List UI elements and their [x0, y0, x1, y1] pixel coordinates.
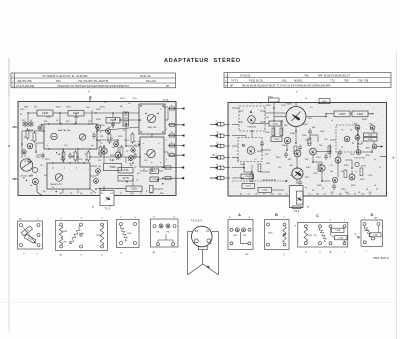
svg-text:6o: 6o [30, 185, 32, 187]
resistor [74, 152, 77, 160]
transistor TS308 [372, 144, 377, 149]
svg-text:VC TRANS./V aa./P1.01. 61. 94,: VC TRANS./V aa./P1.01. 61. 94,95,952, [42, 74, 89, 78]
svg-text:R303: R303 [303, 124, 308, 126]
svg-text:4: 4 [166, 159, 167, 161]
trimmer [38, 126, 42, 130]
svg-text:90,91,93.: 90,91,93. [140, 74, 151, 78]
capacitor C306 [364, 133, 378, 137]
IC block U1 [139, 104, 165, 134]
svg-text:R21: R21 [44, 121, 47, 123]
svg-text:C304: C304 [357, 113, 364, 116]
resistor [33, 133, 36, 141]
svg-text:D: D [371, 213, 374, 217]
svg-text:9P.: 9P. [230, 84, 234, 88]
svg-text:4n: 4n [305, 187, 307, 189]
svg-text:TRANSIST.TS.754/TS2/TS3/TS4/TS: TRANSIST.TS.754/TS2/TS3/TS4/TS5/9T3/9T4/… [57, 84, 130, 88]
svg-text:3: 3 [166, 140, 167, 142]
pin lead 1 [194, 239, 198, 243]
resistor [308, 138, 311, 146]
IC block U3 [44, 124, 97, 149]
svg-text:TS301: TS301 [286, 104, 292, 106]
svg-text:3756: 3756 [350, 154, 354, 156]
transistor [22, 150, 26, 154]
capacitor [68, 153, 72, 160]
svg-text:R206: R206 [96, 109, 101, 111]
resistor 52B8 [59, 226, 63, 238]
svg-text:944, 95,96,97,98,99,952,97.: 944, 95,96,97,98,99,952,97. [318, 74, 351, 78]
svg-text:e7: e7 [341, 147, 343, 149]
transistor TS314 [319, 165, 325, 171]
resistor [87, 152, 90, 160]
svg-text:A: A [238, 213, 241, 217]
resistor 5.10m [70, 226, 81, 244]
svg-text:R0: R0 [44, 175, 46, 177]
svg-text:Q: Q [134, 217, 136, 219]
svg-text:7R0: 7R0 [319, 145, 322, 147]
transistor TS312 [310, 148, 317, 155]
svg-text:C9: C9 [308, 194, 310, 196]
svg-text:C311: C311 [246, 186, 252, 188]
capacitor [133, 153, 137, 160]
svg-text:C4: C4 [128, 103, 130, 105]
resistor 51B5 [120, 226, 127, 241]
svg-text:C301: C301 [281, 105, 286, 107]
svg-text:C201: C201 [46, 117, 51, 119]
wire [53, 112, 68, 114]
resistor R215 [104, 164, 122, 171]
input connector [210, 123, 217, 125]
svg-text:C315: C315 [368, 175, 373, 177]
transistor [114, 142, 119, 147]
capacitor C251 [126, 186, 142, 192]
svg-text:4J: 4J [52, 168, 54, 170]
svg-text:50V: 50V [308, 118, 312, 120]
svg-text:R34: R34 [160, 193, 163, 195]
svg-text:R7: R7 [126, 151, 128, 153]
svg-text:R202: R202 [56, 107, 61, 109]
svg-text:091,: 091, [282, 79, 287, 83]
svg-text:e2: e2 [374, 185, 376, 187]
capacitor C305 [269, 121, 281, 126]
decoder section B [238, 138, 262, 162]
svg-text:B: B [275, 213, 278, 217]
svg-text:C2: C2 [30, 140, 32, 142]
svg-text:795,: 795, [344, 79, 349, 83]
svg-text:R31: R31 [305, 159, 308, 161]
svg-text:R312: R312 [276, 157, 281, 159]
resistor [108, 134, 111, 142]
svg-text:51B5: 51B5 [127, 233, 131, 235]
svg-text:1n: 1n [134, 141, 136, 143]
svg-text:C9: C9 [150, 193, 152, 195]
svg-text:R220: R220 [78, 159, 83, 161]
svg-text:770,: 770, [330, 79, 335, 83]
capacitor C304 [352, 111, 368, 117]
svg-text:Q: Q [101, 254, 103, 256]
resistor R207 (vertical) [123, 112, 129, 126]
svg-text:6784: 6784 [257, 151, 261, 153]
svg-text:C303: C303 [339, 113, 346, 116]
pin connector [168, 154, 176, 156]
resistor [294, 146, 297, 154]
svg-text:52B8: 52B8 [63, 231, 67, 233]
svg-text:R32: R32 [100, 193, 103, 195]
svg-text:2R0: 2R0 [86, 107, 89, 109]
input connector left lower [12, 178, 18, 180]
input connector [210, 135, 217, 137]
svg-text:C316: C316 [341, 189, 346, 191]
svg-text:9P.: 9P. [166, 84, 170, 88]
resistor [280, 128, 283, 136]
svg-text:C8: C8 [98, 141, 100, 143]
svg-text:4k2: 4k2 [266, 117, 269, 119]
resistor 510k [304, 228, 308, 242]
transistor [115, 152, 121, 158]
capacitor C312 [258, 187, 272, 192]
svg-text:51B2: 51B2 [268, 232, 272, 234]
svg-text:7505: 7505 [109, 165, 116, 169]
svg-text:346,257,256,: 346,257,256, [17, 79, 33, 83]
resistor [62, 152, 65, 160]
capacitor C30A [370, 233, 382, 237]
capacitor C310 [241, 174, 254, 179]
capacitor C307 [364, 137, 378, 141]
output connector d [380, 156, 387, 158]
svg-text:22k: 22k [278, 167, 281, 169]
capacitor [92, 133, 96, 140]
transistor [96, 169, 101, 174]
svg-text:57B4: 57B4 [96, 235, 100, 237]
output stage TS3 box right [289, 186, 303, 208]
resistor [120, 147, 123, 155]
svg-text:d: d [8, 144, 10, 148]
svg-text:R304: R304 [322, 101, 328, 103]
pinout box L3 [117, 220, 140, 248]
svg-text:R36: R36 [345, 192, 348, 194]
capacitor C303 [326, 113, 334, 115]
svg-text:1: 1 [216, 174, 217, 176]
transistor [94, 179, 99, 184]
transistor TS4 [51, 133, 57, 139]
output stage TS3 box [100, 191, 114, 206]
svg-text:6P1: 6P1 [34, 107, 38, 109]
svg-text:C313: C313 [316, 157, 321, 159]
svg-text:R317: R317 [305, 177, 310, 179]
transistor TS302 [248, 116, 256, 124]
svg-text:R9: R9 [43, 191, 45, 193]
transistor [129, 156, 134, 161]
svg-text:C305: C305 [272, 123, 278, 125]
resistor [318, 164, 321, 172]
transistor TS316 [349, 174, 355, 180]
svg-text:9o: 9o [52, 187, 54, 189]
svg-text:C306: C306 [368, 135, 373, 137]
svg-text:97,92,93.: 97,92,93. [240, 74, 251, 78]
svg-text:R204: R204 [120, 98, 125, 100]
svg-text:R213: R213 [124, 140, 129, 142]
svg-text:a1: a1 [143, 169, 145, 171]
resistor [272, 128, 275, 136]
svg-text:C203: C203 [73, 111, 80, 115]
svg-text:R209: R209 [100, 125, 105, 127]
tab [198, 246, 207, 250]
svg-text:R201: R201 [20, 109, 25, 111]
svg-text:R218: R218 [36, 157, 41, 159]
resistor [99, 147, 102, 155]
trimmer row [230, 228, 233, 231]
transistor TS307 [355, 135, 360, 140]
svg-text:p: p [160, 162, 161, 164]
svg-text:TS 3: TS 3 [104, 208, 110, 211]
resistor [131, 134, 134, 142]
resistor [328, 146, 331, 154]
svg-text:1H1: 1H1 [156, 231, 159, 233]
svg-text:C17H: C17H [122, 177, 128, 180]
svg-text:C5: C5 [136, 180, 138, 182]
capacitor [41, 153, 45, 160]
svg-text:90,905,: 90,905, [294, 79, 303, 83]
svg-text:2k2: 2k2 [110, 138, 113, 140]
svg-text:74,73,: 74,73, [231, 79, 239, 83]
svg-text:R320: R320 [317, 185, 322, 187]
svg-text:1: 1 [171, 122, 172, 124]
svg-text:7H1: 7H1 [166, 231, 169, 233]
capacitor C26 (vertical) [150, 186, 154, 193]
wiring mesh left [27, 113, 29, 127]
capacitor C200 [28, 112, 37, 114]
trimmer [23, 122, 27, 126]
input connector [210, 145, 217, 147]
resistor [360, 168, 363, 176]
transistor [101, 148, 107, 154]
svg-text:C31: C31 [110, 193, 113, 195]
svg-text:4k7: 4k7 [137, 173, 140, 175]
resistor R304 [319, 99, 330, 104]
wire [103, 186, 105, 191]
capacitor C302 [271, 137, 282, 142]
IC block U2 [140, 137, 164, 167]
parts table right [224, 73, 391, 88]
svg-text:R32: R32 [270, 194, 273, 196]
svg-text:R8: R8 [96, 175, 98, 177]
input connector [210, 167, 217, 169]
svg-text:57k: 57k [314, 235, 317, 237]
svg-text:R212: R212 [118, 136, 123, 138]
pinout box L2 [56, 221, 108, 251]
capacitor [27, 158, 31, 165]
transistor TS2 [147, 149, 155, 157]
input connector [210, 156, 217, 158]
capacitor C10A [332, 228, 345, 232]
svg-text:R217: R217 [116, 159, 121, 161]
resistor 67B [21, 226, 32, 236]
transistor TS301 [286, 107, 306, 127]
capacitor [284, 152, 288, 159]
svg-text:51H5: 51H5 [63, 242, 68, 244]
capacitor [338, 150, 342, 157]
svg-text:0J2: 0J2 [98, 153, 101, 155]
transistor TS317 [332, 177, 337, 182]
resistor [250, 174, 253, 182]
extra clutter left [56, 152, 57, 153]
svg-text:01: 01 [30, 120, 32, 122]
svg-text:R305: R305 [240, 164, 245, 166]
left channel board outline [18, 102, 176, 196]
trimmer [29, 122, 33, 126]
resistor [26, 130, 29, 138]
input connector [210, 177, 217, 179]
svg-text:C: C [316, 214, 319, 218]
svg-text:P41.: P41. [56, 79, 62, 83]
svg-text:47k: 47k [128, 160, 131, 162]
svg-text:TBA 305 A: TBA 305 A [373, 256, 390, 260]
svg-text:BC: BC [195, 231, 199, 233]
svg-text:5H1: 5H1 [243, 235, 246, 237]
svg-text:x1: x1 [374, 159, 376, 161]
resistor [258, 164, 261, 172]
decoder section A [239, 106, 265, 131]
svg-text:C307: C307 [368, 139, 373, 141]
stub to node 6 [89, 96, 91, 102]
svg-text:C3: C3 [310, 107, 312, 109]
wire to circle [188, 230, 192, 232]
capacitor C311 [242, 184, 255, 189]
svg-text:510k: 510k [308, 235, 312, 237]
svg-text:R51: R51 [100, 136, 103, 138]
transistor TS6 [55, 174, 63, 182]
svg-text:C34: C34 [368, 192, 371, 194]
svg-text:R314: R314 [306, 167, 311, 169]
transistor TS315 [335, 157, 341, 163]
svg-text:9R,99,98,96,P&295,9T,96,97,T7,: 9R,99,98,96,P&295,9T,96,97,T7,97,97,91,P… [242, 84, 331, 88]
output connector [163, 167, 176, 169]
transistor [96, 125, 101, 130]
svg-text:C4: C4 [100, 143, 102, 145]
transistor TS313 [292, 168, 303, 179]
transistor TS311 [294, 150, 301, 157]
pin connector [168, 108, 176, 110]
svg-text:C312: C312 [262, 190, 268, 192]
svg-text:97,247,254,256,: 97,247,254,256, [16, 84, 35, 88]
svg-text:C21: C21 [122, 130, 125, 132]
svg-text:J: J [171, 152, 172, 154]
svg-text:C6: C6 [40, 165, 42, 167]
capacitor C24 [150, 169, 159, 174]
svg-text:R33: R33 [130, 193, 133, 195]
resistor 51H5 [59, 238, 63, 245]
capacitor C206 [106, 118, 120, 124]
svg-text:ADAPTATEUR STÉRÉO: ADAPTATEUR STÉRÉO [164, 56, 241, 64]
transistor TS303 [247, 147, 255, 155]
resistor [344, 170, 347, 178]
svg-text:x1: x1 [92, 145, 94, 147]
svg-text:R22: R22 [66, 121, 69, 123]
svg-text:0R1: 0R1 [288, 159, 291, 161]
pin connector [168, 124, 176, 126]
svg-text:C204: C204 [74, 117, 79, 119]
svg-text:Q: Q [173, 216, 175, 218]
svg-text:794,: 794, [304, 74, 309, 78]
svg-text:x2: x2 [331, 120, 333, 122]
svg-text:TS 3: TS 3 [294, 210, 300, 213]
svg-text:2: 2 [166, 129, 167, 131]
svg-text:A: A [250, 109, 253, 114]
svg-text:Q: Q [283, 254, 285, 256]
svg-text:R319: R319 [351, 185, 356, 187]
page edge line [8, 58, 10, 332]
svg-text:1L1: 1L1 [216, 142, 219, 144]
svg-text:4k: 4k [56, 120, 58, 122]
wire [37, 185, 42, 196]
svg-text:R35: R35 [339, 194, 342, 196]
capacitor C25 [150, 177, 159, 182]
transistor TS310 [284, 137, 290, 143]
svg-text:1k0: 1k0 [330, 171, 333, 173]
transistor [27, 143, 33, 149]
pin lead 2 [207, 239, 211, 243]
svg-text:e1: e1 [355, 172, 357, 174]
svg-text:B: B [242, 143, 245, 148]
svg-text:R309: R309 [302, 135, 307, 137]
svg-text:012: 012 [22, 120, 25, 122]
dashed bus [232, 180, 288, 182]
svg-text:d: d [393, 155, 395, 159]
right channel board outline [228, 103, 387, 197]
svg-text:B.PL: B.PL [366, 155, 370, 157]
svg-text:WR2: WR2 [24, 107, 28, 109]
svg-text:796, 798.: 796, 798. [358, 79, 369, 83]
svg-text:P105,95,76,: P105,95,76, [249, 79, 263, 83]
transistor TS7 [33, 179, 39, 185]
capacitor C203 [68, 111, 84, 117]
svg-text:C3: C3 [84, 154, 86, 156]
svg-text:R34: R34 [316, 194, 319, 196]
pin connector [168, 135, 176, 137]
pin connector [168, 145, 176, 147]
transistor [131, 148, 135, 152]
wire [84, 112, 139, 114]
svg-text:R306: R306 [265, 132, 270, 134]
filter section C [336, 125, 359, 152]
transistor TS306 [344, 136, 350, 142]
transistor TS5 [79, 134, 85, 140]
svg-text:C9: C9 [134, 145, 136, 147]
svg-text:R219: R219 [45, 159, 50, 161]
svg-text:R30: R30 [284, 125, 287, 127]
svg-text:R208: R208 [96, 119, 101, 121]
transistor TS309 [356, 150, 361, 155]
transistor TS1 [147, 114, 155, 122]
capacitor C17H [118, 176, 133, 182]
svg-text:1: 1 [171, 142, 172, 144]
svg-text:C314: C314 [313, 173, 318, 175]
output connector [163, 177, 176, 179]
svg-text:1k: 1k [140, 193, 142, 195]
svg-text:R316: R316 [344, 165, 349, 167]
svg-text:b: b [213, 153, 215, 157]
svg-text:R216: R216 [110, 155, 115, 157]
pinout box L1 [18, 221, 43, 249]
svg-text:C200: C200 [42, 111, 49, 115]
svg-text:220: 220 [98, 160, 101, 162]
transistor [106, 129, 111, 134]
wire with arrow [98, 188, 126, 190]
svg-text:R2: R2 [104, 102, 106, 104]
svg-text:R.PL 3V 753: R.PL 3V 753 [354, 158, 366, 160]
svg-text:1: 1 [216, 154, 217, 156]
svg-text:R2: R2 [134, 167, 136, 169]
capacitor [260, 141, 264, 148]
